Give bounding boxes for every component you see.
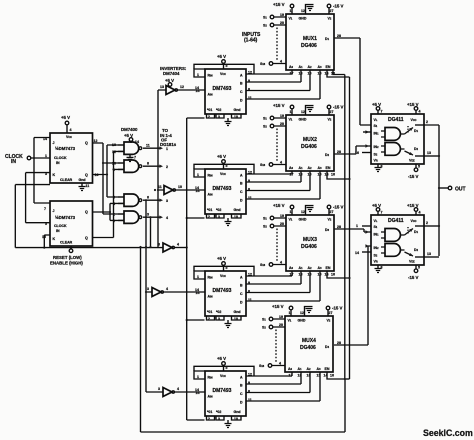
svg-text:2: 2 — [166, 165, 168, 169]
svg-text:MUX2: MUX2 — [303, 137, 317, 143]
svg-text:3: 3 — [158, 387, 160, 391]
svg-text:13: 13 — [427, 151, 431, 155]
svg-text:DM7400: DM7400 — [121, 127, 138, 132]
svg-text:10: 10 — [178, 185, 182, 189]
svg-text:J: J — [53, 209, 55, 213]
svg-text:3: 3 — [147, 287, 149, 291]
svg-text:13: 13 — [427, 252, 431, 256]
svg-text:3: 3 — [166, 199, 168, 203]
svg-text:CLEAR: CLEAR — [60, 178, 73, 182]
svg-text:Q: Q — [85, 236, 88, 240]
svg-text:DM7404: DM7404 — [163, 71, 180, 76]
svg-text:ENABLE (HIGH): ENABLE (HIGH) — [50, 261, 83, 266]
svg-text:3: 3 — [147, 213, 149, 217]
svg-text:4: 4 — [166, 287, 168, 291]
svg-text:28: 28 — [337, 225, 341, 229]
svg-text:MUX1: MUX1 — [303, 36, 317, 42]
svg-text:CLOCK: CLOCK — [54, 224, 67, 228]
svg-text:J: J — [53, 141, 55, 145]
svg-text:28: 28 — [337, 341, 341, 345]
svg-text:1: 1 — [356, 224, 358, 228]
svg-text:14: 14 — [355, 251, 359, 255]
svg-text:8: 8 — [147, 162, 149, 166]
svg-text:IN: IN — [56, 161, 60, 165]
svg-text:RESET (LOW): RESET (LOW) — [53, 255, 82, 260]
svg-text:DG181s: DG181s — [160, 142, 177, 147]
svg-text:12: 12 — [180, 85, 184, 89]
svg-text:D4: D4 — [325, 345, 330, 349]
svg-text:1: 1 — [45, 154, 47, 158]
svg-text:7: 7 — [44, 207, 46, 211]
svg-text:IN: IN — [11, 159, 16, 165]
svg-text:2: 2 — [426, 120, 428, 124]
svg-text:4: 4 — [177, 243, 179, 247]
svg-text:(1-64): (1-64) — [244, 38, 258, 44]
svg-text:OUT: OUT — [455, 187, 466, 193]
svg-text:4: 4 — [177, 387, 179, 391]
svg-text:Q: Q — [85, 173, 88, 177]
svg-text:D2: D2 — [325, 153, 330, 157]
svg-text:28: 28 — [337, 34, 341, 38]
svg-text:11: 11 — [86, 184, 90, 188]
svg-text:CLOCK: CLOCK — [54, 156, 67, 160]
svg-text:16: 16 — [355, 151, 359, 155]
svg-text:½DM7473: ½DM7473 — [55, 215, 76, 220]
svg-text:VCC: VCC — [66, 135, 72, 139]
svg-text:11: 11 — [146, 144, 150, 148]
svg-text:CLEAR: CLEAR — [60, 241, 73, 245]
svg-text:D1: D1 — [325, 37, 330, 41]
svg-text:SeekIC.com: SeekIC.com — [423, 428, 473, 438]
svg-text:½DM7473: ½DM7473 — [55, 146, 76, 151]
svg-text:4: 4 — [166, 216, 168, 220]
svg-text:MUX3: MUX3 — [303, 237, 317, 243]
svg-text:MUX4: MUX4 — [302, 338, 316, 344]
svg-text:Q: Q — [85, 210, 88, 214]
svg-text:28: 28 — [337, 150, 341, 154]
svg-text:K: K — [53, 173, 56, 177]
svg-text:4: 4 — [70, 128, 72, 132]
svg-text:Gnd: Gnd — [79, 178, 86, 182]
svg-text:D3: D3 — [325, 228, 330, 232]
svg-text:7: 7 — [134, 156, 136, 160]
svg-text:1: 1 — [166, 147, 168, 151]
svg-text:K: K — [53, 237, 56, 241]
svg-text:13: 13 — [160, 85, 164, 89]
svg-text:Q: Q — [85, 141, 88, 145]
svg-text:IN: IN — [56, 229, 60, 233]
svg-text:+5 V: +5 V — [61, 115, 70, 120]
svg-text:2: 2 — [426, 221, 428, 225]
svg-text:6: 6 — [147, 196, 149, 200]
